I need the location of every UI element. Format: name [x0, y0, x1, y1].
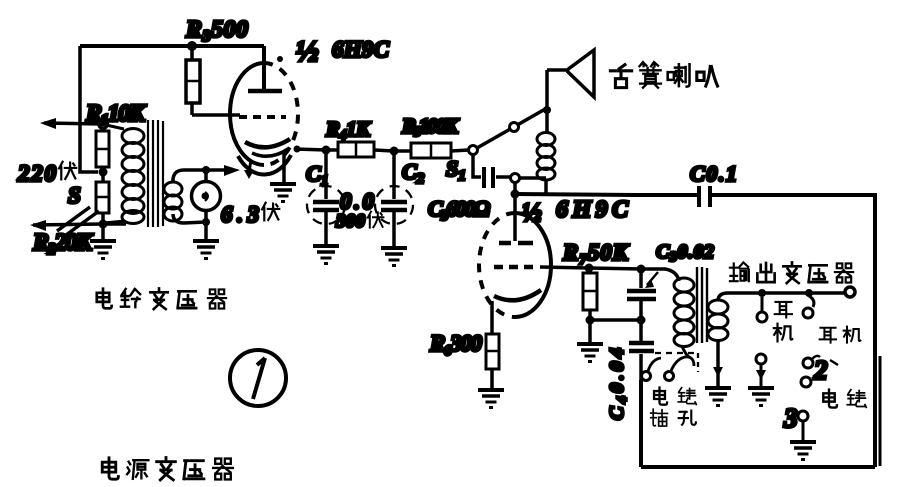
node terminal circle right of C5 [511, 174, 520, 183]
svg-text:R6300: R6300 [429, 331, 483, 359]
earphone jack 1 [761, 297, 764, 312]
label key jack 电键插孔 [654, 387, 667, 404]
node junction dot C3 bottom [637, 316, 646, 325]
label bell transformer 电铃变压器 [97, 289, 112, 309]
node junction dot C2/R5 [390, 147, 399, 156]
svg-text:½: ½ [296, 35, 319, 68]
svg-text:R5100K: R5100K [401, 114, 460, 140]
svg-text:R750K: R750K [562, 240, 630, 268]
svg-text:R220K: R220K [32, 230, 94, 258]
wire R7 bottom to C3 bottom [590, 318, 641, 322]
node junction dot B+ at R3 [187, 41, 197, 51]
tube V1 plate [248, 89, 282, 94]
wire speaker down [545, 70, 549, 133]
node junction dot V2 grid tap [511, 190, 520, 199]
speaker horn [547, 50, 594, 97]
capacitor C3 [639, 269, 643, 320]
node junction dot blade/speaker wire [543, 106, 551, 114]
wire C4 down along box edge [639, 372, 643, 467]
key contact 2 jack pair [812, 356, 820, 359]
tube V1 grid (dashed) [239, 115, 286, 119]
wire R3 bottom to V1 grid [192, 113, 240, 117]
box bottom edge [641, 465, 875, 469]
label 耳机 (horizontal) [820, 328, 836, 343]
wire choke bottom to bus [544, 180, 548, 194]
svg-text:C0.1: C0.1 [690, 161, 737, 186]
node terminal circle at R1 top [99, 120, 108, 129]
node junction dot jack 2 [805, 289, 813, 297]
transformer T1 core [148, 120, 163, 227]
earphone jack 2 hook [809, 296, 814, 307]
svg-text:6.3: 6.3 [221, 202, 259, 227]
node junction dot R7 top [585, 264, 594, 273]
tube V2 grid bar [499, 241, 533, 246]
label key 电键 [823, 390, 837, 408]
ground below lamp [204, 222, 208, 240]
svg-text:R110K: R110K [85, 101, 147, 129]
resistor R5 [411, 143, 451, 158]
wire B+ top rail from left corner to R3 node to tube V1 plate [80, 46, 264, 89]
capacitor C 0.1 in box top edge [699, 186, 710, 207]
svg-text:C30.02: C30.02 [656, 241, 714, 265]
inductor choke coil [537, 133, 555, 181]
tube V1 filament arrow down [249, 160, 251, 172]
wire 220V upper input lead [44, 123, 102, 124]
resistor R7 [583, 273, 597, 310]
svg-text:R41K: R41K [325, 117, 372, 143]
wire V2 plate to transformer [540, 267, 679, 281]
node junction dot jack 1 [758, 289, 766, 297]
node junction dot C1/R4 [322, 146, 331, 155]
wire V2 grid lead [513, 182, 517, 241]
node junction dot C3 top [637, 265, 646, 274]
label output transformer 输出变压器 [730, 262, 749, 281]
wire grid bus to box top edge left part [515, 194, 697, 195]
svg-text:2: 2 [813, 355, 828, 385]
key jack hooks and dashed frame [648, 358, 661, 371]
wire T2 secondary top to jacks rail [718, 293, 847, 301]
resistor R4 [338, 142, 374, 157]
wire T2 primary bottom lead [682, 346, 691, 358]
wire secondary top to lamp [173, 170, 232, 183]
transformer T1 secondary winding [164, 182, 182, 221]
wire V1 cathode to ground [282, 150, 286, 182]
node 6.3V heater arrowhead right [224, 165, 240, 176]
label fu (volt) [59, 162, 76, 180]
svg-text:6H9C: 6H9C [332, 37, 390, 62]
tube V2 envelope (left dashed, right solid) [515, 213, 551, 317]
tube V2 plate (dashed) [494, 265, 536, 270]
svg-text:300: 300 [335, 211, 366, 232]
key jack terminal circles [642, 372, 651, 381]
wire 220V lower input lead [33, 224, 126, 225]
node junction dot lamp top [202, 166, 210, 174]
lamp pilot [204, 170, 208, 222]
capacitor C5 [473, 154, 510, 177]
ground below R7 [588, 320, 592, 343]
resistor R6 [486, 334, 499, 369]
resistor R3 [190, 46, 194, 115]
box left edge lower part [639, 380, 643, 467]
switch S blades [57, 207, 99, 235]
ground below R2 junction [101, 224, 105, 240]
capacitor C4 [639, 320, 643, 372]
output transformer T2 secondary winding [708, 300, 728, 341]
wire T2 secondary bottom to ground [716, 340, 720, 387]
node junction dot lamp bottom [202, 218, 210, 226]
box right edge doubled lower part [879, 356, 882, 466]
switch S1 blade and contacts [477, 108, 547, 148]
svg-text:220: 220 [17, 161, 57, 186]
node 220V lower input arrowhead [30, 220, 46, 231]
svg-text:S: S [68, 183, 81, 208]
label fu (volt) [262, 203, 279, 221]
label power transformer 电源变压器 [102, 458, 118, 479]
svg-text:R3500: R3500 [185, 17, 248, 45]
label 耳机 (vertical) [775, 302, 792, 318]
wire left vertical down to 220V junction [80, 46, 98, 172]
jack 1 mate with ground [756, 354, 766, 364]
label reed speaker 舌簧喇叭 [610, 65, 631, 88]
svg-text:½: ½ [522, 198, 542, 227]
wire secondary bottom to lamp bottom [173, 214, 206, 223]
output transformer T2 primary winding [674, 278, 694, 347]
capacitor C2 (dashed circle style) [392, 151, 396, 247]
svg-text:C5600Ω: C5600Ω [428, 196, 491, 224]
tube V1 envelope (left solid, right dashed) [230, 63, 264, 165]
svg-text:3: 3 [783, 403, 798, 433]
figure number circle 1 [230, 350, 286, 406]
wire V2 cathode to R6 [490, 301, 494, 334]
node junction dot 220V mid [99, 168, 108, 177]
node junction dot R7 bottom [586, 316, 595, 325]
transformer T1 primary winding [104, 125, 125, 223]
box top edge right part and right edge [712, 195, 875, 467]
resistor R2 [96, 182, 109, 213]
wire C5 to choke bottom [519, 176, 546, 180]
node terminal circle rail end [845, 287, 855, 297]
node 220V upper input arrowhead [40, 118, 56, 129]
wire V1 cathode output to R4 [295, 149, 326, 150]
tube V1 cathode arc [245, 139, 290, 147]
capacitor C1 (dashed circle style) [324, 150, 328, 245]
transformer T2 core [697, 267, 707, 343]
svg-text:C40.04: C40.04 [606, 348, 630, 420]
resistor R1 [96, 131, 109, 167]
node junction dot at R2 bottom [99, 220, 108, 229]
tube V2 cathode arc [494, 290, 541, 300]
